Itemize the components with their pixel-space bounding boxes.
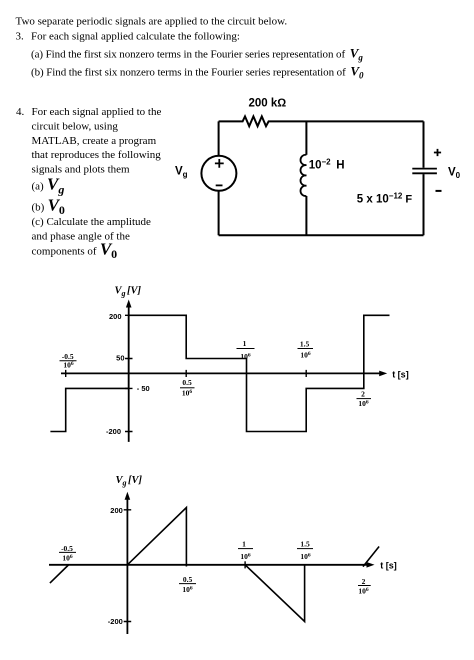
svg-text:0.5: 0.5 — [182, 378, 192, 387]
svg-text:106: 106 — [182, 389, 193, 398]
svg-text:1: 1 — [243, 339, 247, 348]
svg-text:200 kΩ: 200 kΩ — [249, 98, 287, 110]
svg-text:-200: -200 — [106, 427, 121, 436]
svg-text:For each signal applied to the: For each signal applied to the — [32, 106, 162, 118]
svg-text:106: 106 — [300, 552, 311, 561]
svg-text:components of V0: components of V0 — [32, 240, 118, 262]
svg-text:and phase angle of the: and phase angle of the — [32, 231, 130, 243]
svg-text:t [s]: t [s] — [380, 561, 397, 571]
svg-text:1.5: 1.5 — [300, 540, 310, 549]
svg-text:106: 106 — [240, 552, 251, 561]
svg-text:106: 106 — [63, 360, 74, 369]
svg-text:106: 106 — [358, 587, 369, 596]
svg-text:106: 106 — [240, 352, 251, 361]
svg-text:1.5: 1.5 — [300, 340, 310, 349]
svg-text:4.: 4. — [16, 106, 25, 118]
svg-text:MATLAB, create a program: MATLAB, create a program — [32, 135, 157, 147]
svg-text:106: 106 — [300, 351, 311, 360]
svg-text:Vg[V]: Vg[V] — [116, 475, 143, 488]
svg-text:106: 106 — [62, 553, 73, 562]
svg-text:106: 106 — [182, 585, 193, 594]
svg-text:t [s]: t [s] — [392, 370, 409, 380]
svg-text:50: 50 — [116, 354, 124, 363]
svg-text:2: 2 — [362, 577, 366, 586]
svg-text:0.5: 0.5 — [183, 575, 193, 584]
svg-text:106: 106 — [358, 399, 369, 408]
svg-text:Two separate periodic signals: Two separate periodic signals are applie… — [16, 16, 288, 28]
svg-text:Vg[V]: Vg[V] — [115, 286, 142, 299]
svg-text:(c) Calculate the amplitude: (c) Calculate the amplitude — [32, 216, 152, 228]
svg-text:V0: V0 — [448, 167, 461, 181]
svg-text:200: 200 — [109, 312, 122, 321]
svg-text:3.: 3. — [16, 31, 25, 43]
svg-text:200: 200 — [110, 506, 123, 515]
svg-text:(a) Find the first six nonzero: (a) Find the first six nonzero terms in … — [31, 46, 363, 63]
svg-text:(a) Vg: (a) Vg — [32, 175, 65, 197]
svg-text:Vg: Vg — [175, 166, 188, 180]
svg-text:(b) V0: (b) V0 — [32, 196, 65, 218]
svg-text:-200: -200 — [108, 617, 123, 626]
svg-text:circuit below, using: circuit below, using — [32, 121, 119, 133]
svg-text:(b) Find the first six nonzero: (b) Find the first six nonzero terms in … — [31, 64, 364, 81]
svg-text:2: 2 — [361, 390, 365, 399]
svg-text:1: 1 — [242, 540, 246, 549]
svg-text:-0.5: -0.5 — [61, 544, 73, 553]
svg-text:that reproduces the following: that reproduces the following — [32, 149, 162, 161]
svg-text:For each signal applied calcul: For each signal applied calculate the fo… — [31, 31, 240, 43]
svg-text:5 x 10−12 F: 5 x 10−12 F — [357, 192, 413, 206]
svg-text:10−2 H: 10−2 H — [309, 158, 345, 172]
svg-text:- 50: - 50 — [137, 384, 150, 393]
